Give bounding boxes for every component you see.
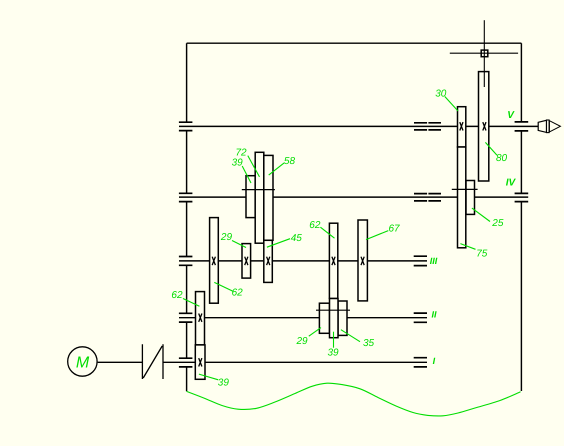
spline guide line shaft II sliding block [316, 309, 350, 311]
leader z30 [445, 97, 458, 112]
svg-text:35: 35 [363, 338, 375, 349]
centering crosshair horizontal [450, 52, 518, 54]
leader z62 right [214, 282, 233, 291]
leader z67 [366, 231, 388, 240]
spindle end flange bar [547, 120, 550, 133]
svg-text:67: 67 [389, 224, 401, 235]
gear z62 shaft II left [196, 292, 205, 345]
leader z39 shaft IV [242, 166, 251, 183]
shaft IV [179, 196, 528, 198]
frame left wall segments [186, 43, 188, 391]
shaft I end ticks [414, 358, 427, 367]
leader z75 [460, 244, 475, 250]
svg-text:30: 30 [435, 88, 447, 99]
gear z25 shaft IV [466, 181, 475, 215]
svg-text:58: 58 [284, 156, 296, 167]
gear z45 shaft III [264, 240, 273, 282]
bearing shaft V left wall [179, 122, 193, 130]
svg-text:62: 62 [232, 287, 244, 298]
bearing shaft IV left wall [179, 193, 193, 201]
gear z29 shaft III [242, 244, 251, 279]
spline guide line gears z75 z25 [452, 188, 478, 190]
centering crosshair vertical [483, 20, 485, 87]
shaft II end ticks [414, 313, 427, 322]
svg-text:75: 75 [476, 249, 488, 260]
svg-text:45: 45 [291, 233, 303, 244]
leader z58 [269, 163, 284, 175]
svg-text:II: II [432, 309, 438, 319]
svg-text:80: 80 [496, 153, 508, 164]
frame right wall segments [520, 43, 522, 391]
svg-text:39: 39 [328, 348, 340, 359]
leader z29 shaft III [232, 241, 246, 248]
fixed joint x gear z29 [245, 257, 248, 265]
leader z35 [341, 330, 360, 342]
fixed joint x gear z30 [460, 122, 463, 130]
double bearing shaft IV middle [414, 194, 441, 201]
leader z29 shaft II [309, 328, 321, 337]
green break wave line [187, 383, 521, 416]
fixed joint x gear z80 [483, 122, 486, 130]
bearing shaft IV right wall [515, 193, 529, 201]
bearing shaft I left wall [179, 358, 193, 367]
svg-text:29: 29 [296, 336, 309, 347]
svg-text:M: M [76, 354, 90, 371]
shaft V [179, 125, 538, 127]
leader z25 [472, 208, 490, 221]
leader z80 [485, 142, 497, 155]
spindle end arrow tip [549, 121, 560, 132]
motor M circle [68, 347, 97, 376]
gear z35 shaft II sliding block [338, 301, 347, 335]
gear z29 shaft II sliding block [319, 303, 329, 333]
svg-text:62: 62 [171, 290, 183, 301]
bearing shaft V right wall [515, 122, 529, 131]
svg-text:39: 39 [232, 157, 244, 168]
leader z39 shaft II [333, 332, 335, 348]
svg-text:25: 25 [491, 218, 504, 229]
gear z62 shaft III middle [329, 223, 337, 298]
belt drive symbol [142, 344, 163, 379]
fixed joint x gear z45 [267, 257, 270, 265]
leader z39 shaft I [199, 374, 218, 380]
centering square [481, 50, 488, 57]
gear z39 shaft IV sliding block [246, 176, 255, 218]
leader z45 [267, 239, 290, 248]
fixed joint x gear z62 middle [332, 257, 335, 265]
spindle end cone [538, 120, 546, 132]
leader z62 middle [320, 227, 334, 238]
gear z39 shaft II sliding block [330, 299, 339, 338]
shaft III end ticks [414, 256, 427, 265]
gear z75 shaft IV [458, 147, 466, 248]
svg-text:29: 29 [220, 232, 233, 243]
svg-text:IV: IV [506, 177, 517, 188]
svg-text:39: 39 [218, 377, 230, 388]
leader z72 [248, 156, 260, 177]
shaft I [98, 361, 427, 363]
gear z72 shaft IV sliding block [255, 152, 264, 243]
fixed joint x gear z62 shaft II [199, 314, 202, 322]
fixed joint x gear z39 shaft I [199, 358, 202, 366]
gear z58 shaft IV sliding block [264, 155, 273, 240]
gear z62 shaft III left [210, 218, 219, 304]
gear z30 shaft V [458, 107, 466, 147]
gear z67 shaft III [358, 220, 367, 301]
svg-text:III: III [430, 256, 438, 266]
fixed joint x gear z67 [361, 257, 364, 265]
shaft III [179, 260, 427, 262]
double bearing shaft V middle [414, 123, 441, 130]
leader z62 left [183, 299, 199, 307]
fixed joint x gear z62 left [212, 257, 215, 265]
frame top wall line [187, 42, 522, 44]
gear z39 shaft I [195, 345, 205, 379]
spline guide line shaft IV sliding block [242, 189, 275, 191]
shaft II [179, 317, 427, 319]
bearing shaft II left wall [179, 313, 193, 322]
bearing shaft III left wall [179, 257, 193, 266]
svg-text:62: 62 [309, 220, 321, 231]
gear z80 shaft V [479, 72, 489, 181]
